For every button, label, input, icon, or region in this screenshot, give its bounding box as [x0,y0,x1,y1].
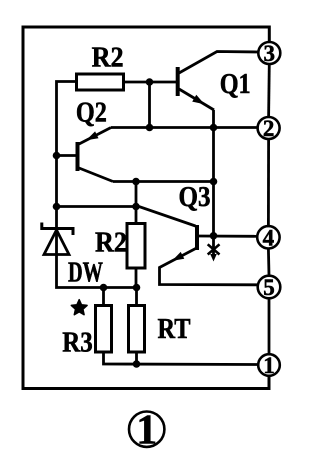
resistor R2 (top) [77,74,124,90]
svg-text:Q1: Q1 [220,69,251,100]
junction: pin2 wire and R2 branch [146,124,154,132]
wire: pin2 to pin4 connector [267,139,270,226]
terminal pin 1 [258,353,280,378]
junction: zener top on left rail [53,203,61,211]
svg-text:DW: DW [68,258,103,289]
transistor Q3 [160,225,258,285]
wire: pin3 to pin2 connector [267,63,270,117]
junction: RT top node [133,284,141,292]
svg-text:4: 4 [263,225,275,250]
junction: R3 top node [100,284,108,292]
figure number 1 [129,408,164,454]
wire: Q1 emitter vertical rail down to cut stub [212,110,215,257]
wire: R2 (middle) lower lead [135,268,138,288]
svg-text:Q2: Q2 [76,98,107,129]
svg-text:3: 3 [264,41,276,66]
wire: zener node horizontal with diagonal to Q3 base [57,207,196,227]
resistor R3 [96,306,112,353]
terminal pin 2 [258,116,280,141]
junction: zener node and R2 middle column [132,203,140,211]
resistor RT [129,306,145,353]
wire: bottom rail from R3 to pin 1 [104,352,259,365]
junction: Q2 base on left rail [53,152,61,160]
wire: pin 2 horizontal net [111,126,258,129]
wire: Q2 collector horizontal to emitter rail [113,180,214,183]
junction: Q3 collector and rail stub [210,232,218,240]
junction: RT bottom node [133,360,141,368]
terminal pin 4 [257,225,279,250]
junction: pin2 wire and Q1 emitter [210,124,218,132]
terminal pin 5 [258,275,281,300]
asterisk mark [71,300,87,315]
svg-text:2: 2 [263,116,275,141]
junction: R2 output node [146,78,154,86]
wire: R2 (middle) upper lead [135,182,138,224]
svg-text:5: 5 [263,275,275,300]
cut mark X on stub [208,244,220,261]
svg-text:R2: R2 [92,43,124,74]
junction: Q2 collector and R2 middle [132,178,140,186]
wire: vertical from R2 output node down to pin-2 wire [148,82,151,128]
transistor Q1 [178,52,259,111]
wire: R2 right lead to Q1 base [124,81,177,84]
wire: RT lower lead [135,352,138,364]
junction: Q2 collector and emitter rail [210,178,218,186]
terminal pin 3 [258,41,280,66]
resistor R2 (middle) [127,224,145,269]
IC outline frame [23,27,269,389]
svg-text:R3: R3 [62,328,93,359]
svg-text:Q3: Q3 [179,182,211,213]
svg-text:RT: RT [158,314,191,345]
zener diode DW [42,223,73,255]
wire: left rail from lower node up to R2 left lead [57,82,137,288]
wire: pin4 to pin5 connector [267,249,270,276]
wire: R3 upper lead [102,288,105,306]
svg-text:1: 1 [136,408,157,454]
wire: pin5 to pin1 connector [268,298,271,354]
svg-text:1: 1 [263,353,275,378]
svg-text:R2: R2 [95,228,127,259]
transistor Q2 [57,128,114,182]
wire: RT upper lead [135,288,138,306]
